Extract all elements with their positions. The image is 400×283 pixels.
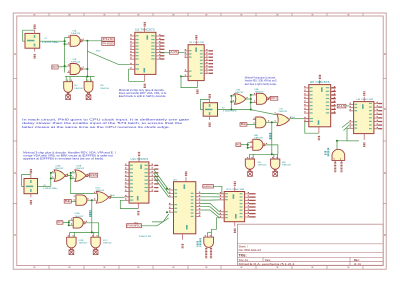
svg-text:U12C: U12C bbox=[103, 240, 108, 242]
wire U11B out bbox=[87, 199, 94, 201]
nand U1B bbox=[67, 65, 70, 67]
ic U6 74HC139 bbox=[354, 102, 374, 134]
no-connect X U8C bbox=[249, 171, 251, 172]
wire A15 to U3 bbox=[178, 52, 184, 54]
U3 enable wire to GND bbox=[180, 75, 182, 77]
svg-text:PHI0: PHI0 bbox=[103, 37, 115, 41]
wire U8B out loop bbox=[265, 144, 266, 146]
wire RDY to U12A bbox=[63, 221, 69, 223]
wire A15 to U6 bbox=[346, 105, 349, 107]
label RDY box circuit3 bbox=[57, 221, 63, 225]
svg-text:74HC00: 74HC00 bbox=[74, 88, 83, 90]
svg-text:RDY: RDY bbox=[271, 96, 277, 100]
wire X1 out bbox=[40, 40, 65, 42]
wire U1A output bbox=[82, 40, 84, 42]
svg-text:A15: A15 bbox=[170, 50, 178, 54]
label RDY out box bbox=[269, 98, 270, 100]
wire U7A out bbox=[246, 98, 251, 100]
wire U6 OE hook / GND bbox=[347, 128, 359, 141]
svg-text:PhI2: PhI2 bbox=[96, 51, 101, 53]
svg-text:74HC32: 74HC32 bbox=[235, 92, 244, 94]
U13 output net labels bbox=[154, 165, 158, 166]
label PHI0 bbox=[102, 37, 115, 41]
label BE box circuit3 bbox=[64, 200, 71, 204]
svg-text:U2 74HC573: U2 74HC573 bbox=[135, 29, 156, 31]
wire U12A out loop bbox=[85, 222, 86, 224]
label A15 box bbox=[170, 50, 179, 54]
svg-text:U12A: U12A bbox=[75, 212, 81, 215]
nand U8A bbox=[254, 94, 257, 96]
nand U1C (spare, down) bbox=[64, 82, 73, 93]
wire to spare gate U9A bbox=[337, 140, 359, 142]
U6 GND pin bbox=[363, 134, 365, 140]
svg-text:File: 6502-bank.sch: File: 6502-bank.sch bbox=[239, 248, 262, 252]
svg-text:BE: BE bbox=[241, 123, 247, 126]
U6 output net labels bbox=[378, 103, 382, 104]
oscillator X1 bbox=[23, 30, 35, 41]
X2 power pin bottom bbox=[209, 116, 211, 120]
label PHI0B bbox=[102, 42, 115, 46]
U16D output labels bbox=[205, 247, 207, 248]
svg-text:74HC02: 74HC02 bbox=[75, 216, 84, 218]
U2 output net labels bbox=[160, 35, 164, 36]
node junction column U7A inputs bbox=[230, 96, 232, 110]
nand U1D (spare, down) bbox=[84, 82, 93, 93]
svg-text:Rev:: Rev: bbox=[354, 259, 360, 262]
ic U3 74HC139 bbox=[188, 45, 204, 81]
label RAMRD box circuit4 bbox=[203, 185, 214, 188]
wire PhI2 vertical bbox=[86, 41, 88, 77]
no-connect X U1D bbox=[88, 94, 90, 96]
label PhI2 vertical circuit3 bbox=[89, 216, 91, 217]
X1 power pin bottom bbox=[34, 48, 36, 51]
svg-text:1.8432 MHz: 1.8432 MHz bbox=[223, 111, 237, 113]
border zone ticks top/bottom bbox=[48, 13, 50, 16]
nor U11C 74HC02 bbox=[96, 191, 108, 203]
U3 GND pin bbox=[196, 81, 198, 88]
U13 output diagonals to U14 bbox=[154, 169, 169, 190]
U13 GND pin bbox=[137, 203, 139, 209]
svg-text:RES: RES bbox=[90, 173, 97, 177]
X1 power pin top bbox=[34, 30, 36, 34]
svg-text:U3 74HC139: U3 74HC139 bbox=[189, 42, 205, 44]
ic U15 74HC138 bbox=[224, 192, 244, 222]
border zone ticks left/right bbox=[13, 78, 17, 80]
svg-text:KiCad E.D.A. eeschema (5.1.2): KiCad E.D.A. eeschema (5.1.2)-1 bbox=[239, 263, 296, 266]
label RESET out box bbox=[87, 175, 89, 177]
wire U1B output bbox=[82, 68, 84, 70]
U3 VCC pin bbox=[195, 41, 197, 45]
nor U12B (spare, down) bbox=[67, 237, 76, 248]
node column U10B inputs bbox=[70, 173, 72, 179]
no-connect X U12B bbox=[70, 248, 72, 251]
U6 VCC pin bbox=[363, 97, 365, 102]
label PhI2 vertical bbox=[269, 138, 271, 139]
wire U2 to A15 label bbox=[161, 52, 170, 54]
svg-text:74HC32: 74HC32 bbox=[278, 111, 287, 113]
oscillator X3 bbox=[22, 175, 31, 187]
wire BE to U9B bbox=[247, 123, 256, 125]
U13 VCC pin bbox=[138, 157, 140, 162]
wire RAMRD to U15 bbox=[214, 186, 222, 194]
svg-text:Date:: Date: bbox=[265, 259, 271, 262]
svg-text:74HC00: 74HC00 bbox=[100, 88, 109, 90]
pin number ticks gates bbox=[68, 36, 69, 37]
ic U2 74HC573 bbox=[135, 32, 156, 74]
svg-text:Id: 1/1: Id: 1/1 bbox=[354, 263, 362, 266]
nand U12A bbox=[71, 219, 74, 221]
nand U8B bbox=[236, 143, 241, 146]
svg-text:Size: A4: Size: A4 bbox=[239, 259, 249, 262]
svg-text:74HC00: 74HC00 bbox=[255, 92, 264, 94]
wire U2 OE hook to GND bbox=[129, 69, 145, 81]
ic U5 74HC573 bbox=[309, 85, 331, 127]
U15 GND pin bbox=[234, 222, 236, 227]
svg-text:PHI0B: PHI0B bbox=[103, 41, 115, 45]
no-connect X U8D bbox=[274, 171, 276, 172]
wire spare feed row circuit3 bbox=[70, 231, 99, 233]
svg-text:74HC02: 74HC02 bbox=[95, 190, 104, 192]
wire U9B out bbox=[266, 121, 277, 123]
label RDY box bbox=[52, 65, 58, 69]
svg-text:74HC02: 74HC02 bbox=[103, 243, 112, 245]
nand U8C (spare, down) bbox=[245, 159, 254, 169]
svg-text:1.8432 MHz: 1.8432 MHz bbox=[42, 42, 59, 44]
wire RDY to U1B bbox=[58, 66, 67, 68]
svg-text:U1C: U1C bbox=[74, 85, 78, 87]
U5 output net labels bbox=[332, 87, 336, 88]
node column U12A inputs bbox=[68, 220, 70, 225]
X3 power pin top bbox=[30, 175, 32, 179]
U2 GND pin bbox=[144, 74, 146, 81]
U2 VCC pin bbox=[144, 27, 146, 32]
svg-text:74HC02: 74HC02 bbox=[75, 168, 84, 170]
svg-text:U15 74HC138: U15 74HC138 bbox=[226, 189, 245, 191]
wire X3 out bbox=[38, 185, 51, 187]
node junction column U8A inputs bbox=[250, 95, 252, 110]
svg-text:latter closes at the same time: latter closes at the same time as the CP… bbox=[22, 125, 170, 129]
title block rows bbox=[237, 243, 383, 245]
svg-text:U6 74HC139: U6 74HC139 bbox=[357, 99, 375, 101]
nor U10B 74HC02 bbox=[75, 170, 86, 182]
nand U8D (spare, down) bbox=[271, 159, 280, 169]
svg-text:74HC02: 74HC02 bbox=[79, 243, 88, 245]
U15 output net labels bbox=[249, 193, 255, 194]
wires U14 to U15 crossing bbox=[201, 193, 220, 195]
wire BE to U11B bbox=[71, 200, 76, 202]
U13 OE hook to GND bbox=[120, 200, 138, 208]
svg-text:U1A: U1A bbox=[73, 30, 78, 33]
svg-text:74HC00: 74HC00 bbox=[282, 165, 291, 167]
U5 VCC pin bbox=[319, 80, 321, 85]
wire U5 OE to GND bbox=[305, 122, 319, 134]
wire X2 out bbox=[218, 109, 251, 111]
svg-text:U12B: U12B bbox=[79, 240, 84, 242]
svg-text:1.8432 MHz: 1.8432 MHz bbox=[43, 188, 58, 190]
wires RAMRD to U14 enables bbox=[142, 218, 169, 226]
svg-text:74HC00: 74HC00 bbox=[254, 138, 263, 140]
svg-text:Each bank is split in half by: Each bank is split in half by decode. bbox=[245, 83, 277, 86]
title block outline bbox=[237, 224, 383, 265]
oscillator X2 bbox=[201, 99, 210, 109]
svg-text:74HC02: 74HC02 bbox=[55, 168, 64, 170]
U9A input labels bbox=[334, 160, 336, 162]
U15 VCC pin bbox=[234, 187, 236, 192]
wire diagonal to U2 LE bbox=[87, 51, 129, 64]
wire PhI2 vertical circuit3 bbox=[91, 200, 93, 232]
wire U10A out bbox=[67, 175, 71, 177]
or U7A 74HC32 bbox=[235, 94, 247, 105]
X2 power pin top bbox=[209, 99, 211, 102]
ic U13 74HC573 bbox=[129, 162, 149, 203]
svg-text:RDY: RDY bbox=[53, 65, 58, 69]
svg-text:BE: BE bbox=[65, 200, 71, 203]
X3 power pin bottom bbox=[30, 194, 32, 198]
wire spare-gate feed bbox=[65, 76, 95, 78]
svg-text:Sheet: /: Sheet: / bbox=[239, 244, 248, 248]
svg-text:RAMRD: RAMRD bbox=[204, 185, 214, 188]
wire spare feed row bbox=[250, 153, 278, 155]
node junction column U1A inputs bbox=[64, 38, 66, 73]
svg-text:Each bank is split in half by: Each bank is split in half by decode. bbox=[119, 95, 167, 98]
wires U14 enable stubs bbox=[166, 211, 168, 213]
svg-text:74HC00: 74HC00 bbox=[258, 165, 267, 167]
label A15 box circuit2 bbox=[337, 104, 346, 108]
nor U10A 74HC02 bbox=[54, 170, 65, 182]
svg-text:RAMRD: RAMRD bbox=[127, 224, 141, 228]
ic U14 74HC138 bbox=[174, 182, 196, 234]
node junction column U6A inputs (circuit 3) bbox=[50, 173, 52, 187]
and U9A (spare, up) bbox=[332, 149, 345, 160]
nand U1A bbox=[67, 37, 70, 39]
svg-text:74HC00: 74HC00 bbox=[71, 33, 82, 35]
U14 GND pin bbox=[182, 234, 184, 240]
svg-text:U8C: U8C bbox=[258, 162, 262, 164]
wire U7C out PhI0 bbox=[290, 118, 304, 120]
U14 VCC pin bbox=[185, 177, 187, 182]
svg-text:A15: A15 bbox=[338, 105, 346, 108]
nor U16D (spare, down) bbox=[204, 237, 214, 247]
label BE box bbox=[240, 123, 247, 127]
or U7C 74HC32 bbox=[277, 114, 290, 126]
svg-text:U13 74HC573: U13 74HC573 bbox=[131, 159, 149, 161]
nor U12C (spare, down) bbox=[91, 237, 100, 248]
U5 GND pin bbox=[318, 127, 320, 133]
wire PhI2 long vertical bbox=[271, 122, 273, 154]
svg-text:RDY: RDY bbox=[58, 222, 63, 224]
svg-text:Title:: Title: bbox=[239, 253, 247, 257]
svg-text:U1D: U1D bbox=[100, 85, 104, 87]
wire diagonal to U7C input bbox=[250, 110, 277, 115]
svg-text:U8D: U8D bbox=[282, 162, 286, 164]
no-connect X U1C bbox=[67, 94, 69, 96]
U3 output net labels bbox=[208, 50, 213, 51]
svg-text:74HC139: 74HC139 bbox=[139, 236, 153, 238]
svg-text:RD: RD bbox=[237, 144, 241, 146]
wire U15 hook to U16D bbox=[212, 218, 220, 237]
wire U11C out PhI0 bbox=[110, 196, 124, 198]
no-connect X U12C bbox=[95, 248, 97, 251]
and U11B bbox=[76, 195, 87, 205]
and U9B bbox=[253, 119, 256, 121]
wire U10A junction down to U11C bbox=[71, 176, 94, 194]
wire U6 lower-left diagonals bbox=[342, 122, 349, 128]
svg-text:74HC00: 74HC00 bbox=[71, 61, 82, 63]
svg-text:appears at $3FFFE6 in emulator: appears at $3FFFE6 in emulator-land (as … bbox=[23, 157, 104, 161]
svg-text:U10A: U10A bbox=[56, 165, 62, 168]
